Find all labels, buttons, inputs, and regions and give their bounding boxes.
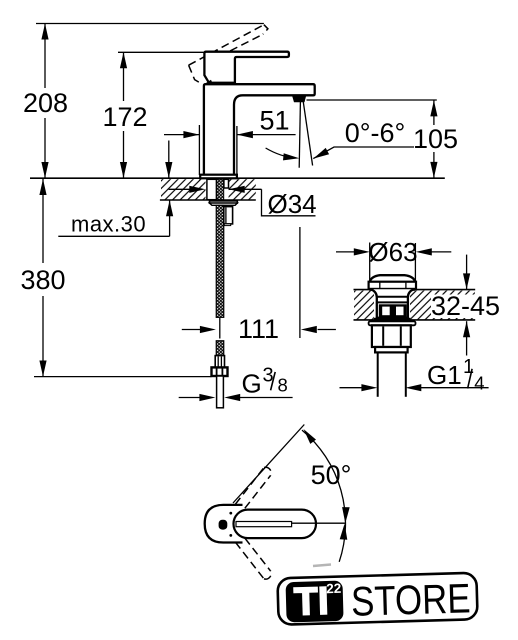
drain cap plate [369, 282, 416, 289]
handle lever (solid) [204, 52, 289, 83]
TI STORE logo box [277, 573, 477, 628]
second connection stub [224, 179, 229, 188]
svg-text:max.30: max.30 [71, 212, 146, 237]
dimension 111 [182, 329, 201, 331]
drain nut collar [375, 347, 408, 352]
svg-text:8: 8 [278, 374, 288, 395]
check valve fitting [224, 207, 233, 224]
countertop hatched section [161, 179, 206, 199]
svg-text:32-45: 32-45 [431, 291, 500, 321]
label 32-45 [431, 295, 500, 319]
faucet body and spout [204, 84, 315, 175]
svg-text:Ø34: Ø34 [268, 189, 317, 219]
mounting washer [210, 201, 238, 203]
svg-text:22: 22 [326, 581, 341, 596]
drain dome cap [370, 275, 416, 282]
50 degree arc [302, 430, 345, 562]
wire: 172 extension line (handle top) [118, 51, 205, 53]
dimension 172 vertical line [123, 52, 125, 101]
connection pipe G3/8 [217, 376, 224, 408]
svg-text:TI: TI [293, 580, 329, 624]
svg-text:51: 51 [259, 106, 289, 136]
50 degree ray [233, 425, 304, 504]
dimension dia34 leader [169, 188, 190, 190]
svg-text:1: 1 [463, 356, 474, 378]
wire: spout height extension line [307, 99, 437, 101]
drain body through deck [371, 289, 415, 318]
svg-text:111: 111 [238, 314, 279, 344]
svg-text:Ø63: Ø63 [368, 237, 417, 267]
braided supply hose (lower) [216, 341, 224, 356]
angle arc arrow (0deg side) [266, 148, 296, 158]
plan view lever [234, 510, 317, 538]
handle raised position (dashed) [189, 25, 268, 83]
drain bottom flange [374, 318, 410, 320]
wire: spout centre extension line [299, 227, 301, 338]
plan axis line [292, 522, 346, 524]
drain valve windows [379, 304, 407, 317]
hose crimp ferrule [215, 356, 224, 368]
faucet base flange [200, 175, 237, 179]
dimension G1 1/4 [340, 387, 363, 389]
hose centreline in gap [219, 318, 221, 339]
drain locknut [372, 325, 411, 347]
handle rotated dashed (up) [235, 467, 271, 508]
svg-text:50°: 50° [311, 460, 352, 490]
water stream lines [299, 102, 300, 168]
dia63 extension lines [369, 243, 371, 284]
svg-text:0°-6°: 0°-6° [345, 118, 406, 148]
plan cap dots [229, 512, 232, 515]
svg-text:STORE: STORE [350, 576, 471, 626]
stray mark [313, 565, 331, 567]
dimension 208 vertical line [44, 24, 46, 89]
51 extension lines [198, 125, 200, 175]
dimension 105 [433, 100, 435, 125]
plan cap inner blob [219, 520, 228, 530]
dimension G3/8 [179, 397, 201, 399]
svg-text:G: G [242, 369, 262, 399]
aerator (spout outlet) [292, 95, 307, 103]
threaded stud (braided) [217, 179, 224, 199]
braided supply hose (upper) [216, 205, 224, 317]
svg-text:105: 105 [413, 124, 458, 154]
dimension 380 [42, 179, 44, 263]
dimension max30 arrows [168, 141, 170, 179]
plan lever slot [236, 522, 292, 527]
sink deck hatched section [354, 291, 475, 320]
handle rotated dashed (down) [235, 538, 271, 579]
dimension 32-45 [466, 255, 468, 290]
svg-text:4: 4 [474, 373, 484, 394]
mounting shank tube [207, 179, 217, 199]
leader 0-6 with arrow [313, 147, 414, 159]
dimension dia63 [336, 251, 355, 253]
svg-text:208: 208 [23, 88, 68, 118]
hose swivel nut G3/8 [212, 367, 228, 376]
svg-text:380: 380 [20, 265, 65, 295]
plan view body cap [205, 505, 243, 543]
mounting cone nut [210, 203, 238, 205]
wire: 380 bottom extension line [34, 376, 212, 378]
svg-text:G1: G1 [427, 360, 462, 390]
drain tailpipe [377, 352, 379, 396]
wire: 208 extension line (handle max height) [36, 23, 264, 25]
svg-text:172: 172 [102, 102, 147, 132]
dimension 51 [164, 134, 199, 136]
drain washer [369, 321, 416, 325]
